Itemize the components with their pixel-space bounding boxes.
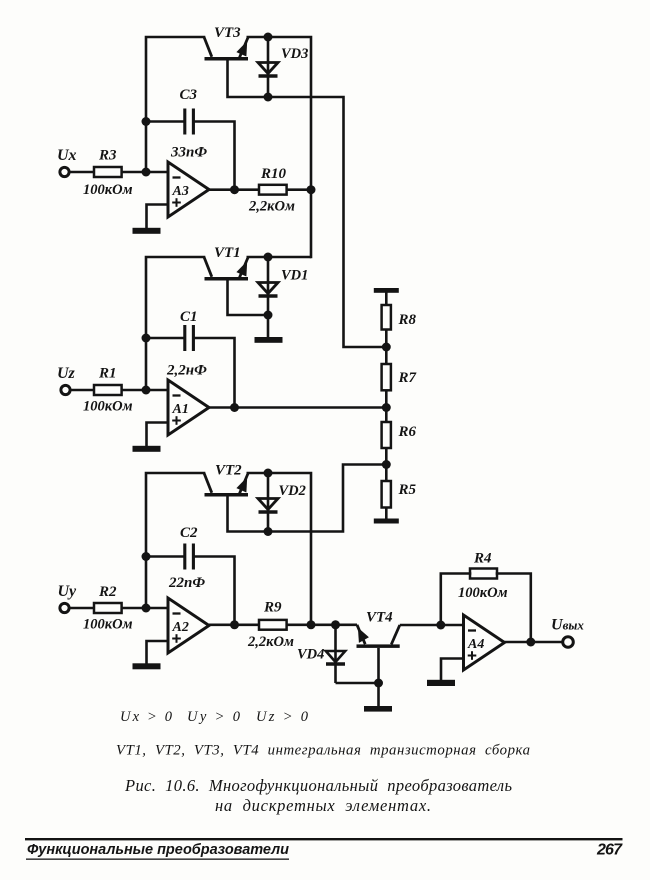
svg-text:2,2нФ: 2,2нФ (166, 363, 207, 379)
wire VT4 base to ground (377, 648, 380, 707)
transistor VT1 (204, 257, 266, 281)
node C3 left junction (142, 117, 151, 126)
svg-text:R3: R3 (98, 148, 117, 164)
svg-text:Uz: Uz (57, 365, 76, 382)
input terminal Ux (60, 167, 69, 176)
capacitor C1 (185, 325, 194, 351)
resistor R10 (259, 185, 287, 195)
wire VT3 emitter to R10 output and down to VT1 (268, 37, 311, 257)
supply rail bottom T-bar (374, 519, 399, 524)
wire A1 input node up and to VT1 collector (146, 257, 204, 390)
node A3 input junction (142, 168, 151, 177)
node A3 output junction (230, 185, 239, 194)
wire C1 right to A1 output node (193, 338, 234, 408)
wire node to R7 (385, 347, 388, 364)
svg-text:R5: R5 (398, 482, 417, 498)
diode VD3 (258, 37, 278, 97)
svg-text:R1: R1 (98, 366, 117, 382)
node A4 input junction (436, 621, 445, 630)
resistor R2 (94, 603, 122, 613)
diode VD4 (326, 625, 345, 683)
wire A4 non-inverting input to ground (441, 659, 464, 681)
ground below VD1 (255, 337, 283, 343)
svg-text:R8: R8 (398, 312, 417, 328)
wire VD4 cathode to VT4 base (336, 682, 379, 685)
node VT3 emitter junction (264, 33, 273, 42)
svg-text:VT3: VT3 (214, 25, 241, 41)
svg-text:R2: R2 (98, 584, 117, 600)
node A4 output junction (526, 638, 535, 647)
diode VD2 (258, 473, 278, 532)
wire Uz terminal to R1 (70, 389, 94, 392)
node A2 output junction (230, 620, 239, 629)
node VD3 cathode junction (264, 93, 273, 102)
svg-text:A3: A3 (172, 184, 189, 199)
transistor VT2 (204, 473, 266, 497)
wire A1 output to divider node (209, 406, 386, 409)
wire R3 to A3 inverting input (122, 171, 168, 174)
wire VT2 emitter down to R9 output (268, 473, 311, 625)
capacitor C3 (185, 109, 194, 135)
wire R9 to VT4 (287, 623, 357, 626)
ground below VT4 (364, 706, 392, 712)
svg-text:A4: A4 (467, 637, 484, 652)
svg-text:VT4: VT4 (366, 610, 393, 626)
resistor R5 (382, 481, 391, 508)
wire R2 to A2 inverting input (122, 607, 168, 610)
wire C3 left (146, 120, 185, 123)
ground at A3 non-inverting input (133, 228, 161, 234)
node C1 left junction (142, 334, 151, 343)
footer title underline (26, 859, 289, 860)
op-amp A3 (168, 162, 209, 217)
svg-text:на дискретных элементах.: на дискретных элементах. (215, 796, 431, 815)
wire VT1 base to VD1 cathode line (228, 280, 269, 315)
node R9 output junction (307, 620, 316, 629)
footer rule (25, 838, 623, 840)
wire A4 feedback up (441, 574, 470, 626)
svg-text:A1: A1 (172, 402, 189, 417)
svg-text:R7: R7 (398, 370, 417, 386)
svg-text:22пФ: 22пФ (168, 575, 205, 591)
svg-text:2,2кОм: 2,2кОм (247, 634, 294, 650)
svg-text:Uвых: Uвых (551, 617, 584, 634)
svg-text:VT1, VT2, VT3, VT4 интегра: VT1, VT2, VT3, VT4 интегральная транзист… (116, 743, 530, 759)
node VD1 cathode junction (264, 311, 273, 320)
svg-text:R6: R6 (398, 424, 417, 440)
svg-text:VT2: VT2 (215, 463, 242, 479)
wire VT1 emitter to feedback line (268, 256, 311, 259)
ground at A4 non-inverting input (427, 680, 455, 686)
wire A3 non-inverting input to ground (147, 205, 169, 229)
svg-text:Uz > 0: Uz > 0 (256, 709, 309, 725)
wire R1 to A1 inverting input (122, 389, 168, 392)
wire C2 left (146, 555, 185, 558)
wire VD2 cathode to R6-R5 node (268, 465, 386, 532)
node VD4 anode junction (331, 620, 340, 629)
wire C1 left (146, 337, 185, 340)
input terminal Uz (61, 385, 70, 394)
output terminal Uvyh (563, 637, 574, 648)
op-amp A4 (464, 615, 505, 670)
ground at A1 non-inverting input (133, 446, 161, 452)
node divider R7-R6 junction (382, 403, 391, 412)
svg-text:A2: A2 (172, 620, 189, 635)
svg-text:C3: C3 (180, 87, 198, 103)
wire A3 output to R10 (209, 188, 259, 191)
resistor R1 (94, 385, 122, 395)
node VT2 emitter junction (264, 469, 273, 478)
resistor R7 (382, 364, 391, 390)
wire Ux terminal to R3 (69, 171, 94, 174)
svg-text:2,2кОм: 2,2кОм (248, 199, 295, 215)
wire A2 output to R9 (209, 623, 259, 626)
wire node to R6 (385, 408, 388, 423)
svg-text:Ux: Ux (57, 147, 77, 164)
wire VT3 base to VD3 cathode line (228, 60, 269, 97)
svg-text:VT1: VT1 (214, 245, 241, 261)
node R6-R5 junction (382, 460, 391, 469)
node VT1 emitter junction (264, 253, 273, 262)
node A1 output junction (230, 403, 239, 412)
node C2 left junction (142, 552, 151, 561)
svg-text:Ux > 0: Ux > 0 (120, 709, 173, 725)
wire A2 input node up and to VT2 collector (146, 473, 204, 608)
svg-text:100кОм: 100кОм (83, 182, 133, 198)
svg-text:VD1: VD1 (281, 268, 308, 284)
resistor R6 (382, 422, 391, 448)
svg-text:Uy: Uy (58, 583, 78, 600)
supply rail top T-bar (374, 288, 399, 293)
input terminal Uy (60, 603, 69, 612)
wire R5 to bottom T-bar (385, 508, 388, 520)
wire VT4 collector to A4 inverting input (400, 624, 464, 627)
wire R7 to node (385, 390, 388, 407)
wire R6 to node (385, 448, 388, 465)
node VT4 base - VD4 cathode junction (374, 679, 383, 688)
svg-text:Uy > 0: Uy > 0 (187, 709, 241, 725)
node R10 output junction (307, 185, 316, 194)
svg-text:R4: R4 (473, 551, 492, 567)
svg-text:VD3: VD3 (281, 46, 308, 62)
svg-text:R10: R10 (260, 166, 287, 182)
node VD2 cathode junction (264, 527, 273, 536)
capacitor C2 (185, 544, 194, 570)
svg-text:C1: C1 (180, 309, 198, 325)
wire A4 output to terminal (505, 641, 563, 644)
wire VD1 cathode to ground (267, 315, 270, 338)
resistor R9 (259, 620, 287, 630)
transistor VT4 (357, 625, 400, 648)
wire Uy terminal to R2 (69, 607, 94, 610)
wire R8 to node (385, 330, 388, 348)
svg-text:100кОм: 100кОм (83, 399, 133, 415)
resistor R4 (470, 569, 497, 579)
wire C2 right to A2 output node (193, 557, 234, 626)
node A2 input junction (142, 604, 151, 613)
svg-text:VD4: VD4 (297, 647, 324, 663)
wire A1 non-inverting input to ground (147, 423, 169, 447)
wire T-bar to R8 (385, 292, 388, 305)
wire A3 input node up and to VT3 collector (146, 37, 204, 172)
wire VT2 base to VD2 cathode line (228, 496, 269, 532)
wire R10 to feedback node (287, 188, 311, 191)
ground at A2 non-inverting input (133, 663, 161, 669)
svg-text:R9: R9 (263, 600, 282, 616)
svg-text:33пФ: 33пФ (170, 145, 207, 161)
wire node to R5 (385, 465, 388, 482)
node R8-R7 junction (382, 343, 391, 352)
diode VD1 (258, 257, 278, 315)
svg-text:100кОм: 100кОм (83, 617, 133, 633)
svg-text:Функциональные преобразователи: Функциональные преобразователи (27, 842, 289, 858)
resistor R3 (94, 167, 122, 177)
svg-text:267: 267 (596, 842, 623, 859)
wire A2 non-inverting input to ground (147, 641, 169, 664)
transistor VT3 (204, 37, 266, 61)
svg-text:Рис. 10.6. Многофункциональн: Рис. 10.6. Многофункциональный преобразо… (124, 776, 512, 795)
svg-text:C2: C2 (180, 525, 198, 541)
svg-text:100кОм: 100кОм (458, 585, 508, 601)
wire VD3 cathode to R8 bottom node (268, 97, 386, 347)
wire R4 to A4 output (497, 574, 531, 643)
op-amp A1 (168, 380, 209, 435)
wire C3 right to A3 output node (193, 122, 234, 191)
op-amp A2 (168, 598, 209, 653)
svg-text:VD2: VD2 (279, 483, 306, 499)
node A1 input junction (142, 386, 151, 395)
resistor R8 (382, 305, 391, 330)
